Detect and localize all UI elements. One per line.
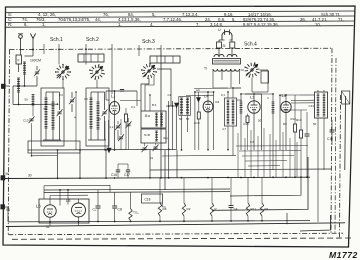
svg-text:30: 30 (28, 174, 32, 178)
coil pack box Sch.2 (78, 54, 104, 62)
terminal tab A (1, 84, 5, 89)
svg-text:a,b: a,b (196, 88, 200, 92)
wire bus pair upper (44, 189, 230, 190)
svg-text:Sch.1: Sch.1 (50, 37, 63, 43)
L1 bias parts (124, 114, 127, 122)
wire stub d (111, 44, 113, 54)
svg-text:0,1: 0,1 (131, 105, 135, 109)
wire harness horizontals (236, 145, 308, 147)
wire stub e (138, 45, 140, 56)
screen boundary right 2 (335, 58, 336, 233)
mains transformer Tr core (213, 59, 241, 65)
svg-text:36,: 36, (300, 17, 306, 22)
bottom shield box left (28, 141, 80, 153)
svg-text:Sch.2: Sch.2 (86, 37, 99, 43)
svg-text:R13: R13 (296, 118, 302, 122)
svg-text:R2: R2 (187, 207, 191, 211)
resistor R04 (129, 209, 132, 221)
svg-text:50: 50 (44, 107, 48, 111)
svg-text:R:: R: (8, 22, 12, 27)
wire harness verticals (237, 133, 239, 178)
fuse Si1 (217, 42, 222, 48)
capacitor C14 (305, 133, 310, 135)
svg-text:4,: 4, (150, 22, 154, 27)
svg-text:C2: C2 (168, 93, 172, 97)
svg-text:4,7: 4,7 (222, 127, 226, 131)
chassis boundary left (8, 50, 9, 235)
svg-text:C18: C18 (145, 198, 151, 202)
tuned circuit block 1 can (41, 88, 64, 146)
wire drop b (79, 150, 81, 178)
wire transformer secondary leads (212, 69, 214, 88)
svg-text:21: 21 (150, 156, 154, 160)
svg-text:6,: 6, (24, 22, 28, 27)
svg-text:Si: Si (223, 44, 226, 48)
svg-text:71,: 71, (338, 17, 344, 22)
svg-text:54: 54 (98, 117, 102, 121)
svg-text:R12: R12 (291, 117, 297, 121)
svg-text:C17: C17 (124, 173, 130, 177)
mains plug (222, 32, 232, 41)
wire box feed (149, 95, 151, 111)
earth terminal (19, 35, 23, 39)
wire inter-can b (108, 120, 110, 150)
wire grid return (118, 163, 128, 165)
wire can risers (168, 101, 170, 178)
svg-text:C15: C15 (327, 137, 333, 141)
valve L5 (72, 203, 86, 217)
output transformer (315, 92, 328, 118)
svg-text:100CM: 100CM (30, 59, 41, 63)
wire drop a (57, 150, 59, 178)
grid leads (59, 190, 61, 206)
fuse Si2 (230, 42, 235, 48)
svg-text:M: M (6, 172, 9, 176)
IF can box upper (141, 111, 166, 128)
wire inter-can a (75, 92, 77, 150)
wire right rail upper (280, 109, 307, 111)
antenna coil La (23, 62, 26, 74)
tuned circuit block 2 (90, 98, 93, 128)
mains transformer Tr secondary (213, 69, 239, 71)
svg-text:C8: C8 (118, 208, 122, 212)
svg-text:F: F (18, 59, 20, 63)
switch contact box Sch4 (261, 71, 269, 83)
wire partial bus (95, 211, 141, 214)
wire output stage (49, 199, 51, 205)
shield box corner 1 (212, 157, 308, 210)
svg-text:10,: 10, (315, 22, 321, 27)
svg-text:L5: L5 (66, 198, 71, 203)
svg-text:C13: C13 (23, 119, 29, 123)
svg-text:C6: C6 (84, 97, 88, 101)
resistor R1 (260, 203, 263, 216)
valve L1 (109, 102, 119, 115)
svg-text:C4: C4 (234, 207, 238, 211)
svg-text:C11: C11 (237, 98, 242, 102)
screen corner bottom right (300, 215, 331, 231)
wire Lv to output rails (291, 99, 315, 101)
wire S1 tab link (5, 206, 8, 208)
svg-text:P: P (215, 207, 217, 211)
trimmer C21 (119, 136, 123, 138)
resistor below arrow (197, 112, 200, 119)
terminal tab S1 (1, 205, 5, 210)
wire stub f (160, 45, 162, 50)
resistor R6 (158, 203, 161, 216)
shield box corner 2 (230, 178, 301, 197)
svg-text:5,: 5, (232, 17, 236, 22)
wire L1 top (114, 91, 116, 102)
trimmer C22 (142, 147, 146, 149)
wire Lv risers (280, 94, 300, 96)
svg-text:R6: R6 (163, 207, 167, 211)
capacitor C8 (112, 205, 117, 207)
svg-text:Sch.3: Sch.3 (142, 39, 155, 45)
coil det2 (272, 102, 275, 113)
svg-text:704/76,13,24/75,: 704/76,13,24/75, (58, 17, 90, 22)
rotary switch Sch.4 (256, 72, 259, 73)
svg-text:8,6/7,5,4,12,15,36,: 8,6/7,5,4,12,15,36, (243, 22, 279, 27)
svg-text:31: 31 (46, 225, 50, 229)
lower dashed line (12, 238, 352, 239)
wire bottom bus 2 (6, 223, 345, 227)
wire bottom bus 1 (8, 221, 310, 222)
svg-text:7,7,12,46,: 7,7,12,46, (163, 17, 182, 22)
svg-text:L3: L3 (250, 95, 255, 100)
arrow junction (197, 98, 201, 102)
svg-text:7,: 7, (196, 22, 200, 27)
svg-text:44,: 44, (95, 17, 101, 22)
svg-text:R9: R9 (283, 122, 287, 126)
svg-text:3,14,8,: 3,14,8, (210, 22, 223, 27)
svg-text:50: 50 (258, 119, 262, 123)
wire det rail (241, 93, 273, 95)
svg-text:50: 50 (186, 117, 190, 121)
svg-text:5,: 5, (152, 12, 156, 17)
capacitor C6 (96, 205, 101, 207)
gang capacitor C2 (116, 125, 120, 127)
wire bus mid (150, 169, 331, 170)
wire L4 risers (194, 92, 196, 150)
resistor R13 (299, 130, 302, 138)
chassis boundary bottom (8, 233, 343, 235)
coil pack box Sch.3 (150, 56, 180, 63)
parts table rule 1 (5, 11, 355, 13)
wire L3 box top (245, 94, 262, 150)
svg-text:76,: 76, (103, 12, 109, 17)
wire stub c (85, 44, 87, 54)
svg-text:0,1: 0,1 (221, 93, 225, 97)
svg-text:C4: C4 (59, 93, 63, 97)
wire can lower rail (141, 148, 176, 150)
svg-text:L6: L6 (36, 204, 41, 209)
svg-text:Sch.4: Sch.4 (244, 42, 257, 48)
capacitor C17 (126, 169, 130, 171)
svg-text:S=R: S=R (144, 133, 151, 137)
parts table rule 4 (5, 26, 354, 28)
svg-text:L4: L4 (204, 94, 209, 99)
svg-text:1,: 1, (118, 22, 122, 27)
svg-text:R1: R1 (265, 207, 269, 211)
wire can bottoms rail (28, 149, 145, 151)
rotary switch Sch.2 (101, 72, 104, 75)
wire antenna block (18, 92, 20, 105)
svg-text:7,12,3,4,: 7,12,3,4, (182, 12, 199, 17)
wire bus M (5, 177, 310, 178)
wire Sch3 to can (141, 79, 149, 112)
coil L-det (240, 102, 243, 113)
wire Sch2 leads (96, 80, 98, 89)
gang capacitor C1 (70, 99, 74, 101)
screen boundary right (340, 95, 341, 238)
svg-text:B:a: B:a (145, 114, 150, 118)
rotary switch Sch.1 (67, 71, 70, 73)
rotary switch Sch.3 (153, 71, 156, 73)
resistor R8 (293, 124, 296, 132)
resistor R10 (246, 116, 249, 123)
svg-text:R10: R10 (244, 122, 250, 126)
parts table rule 2 (5, 16, 354, 18)
chassis boundary right inner (331, 48, 332, 233)
resistor P (210, 203, 213, 216)
oscillator coil L50 (32, 95, 35, 106)
valve L6 (44, 205, 56, 217)
diode arrow (175, 103, 179, 107)
wire Sch4 leads (251, 78, 253, 93)
box C18 (142, 194, 163, 203)
svg-text:1,2: 1,2 (110, 125, 114, 129)
capacitor C on L1 anode (106, 90, 137, 92)
screen corner bottom right 2 (286, 213, 288, 224)
wire drop d (149, 150, 151, 178)
parts table rule 3 (5, 21, 354, 23)
svg-text:0,5: 0,5 (250, 140, 254, 144)
svg-text:50: 50 (179, 117, 183, 121)
wire bus pair lower (44, 192, 230, 193)
trimmer C13 (29, 118, 33, 120)
svg-text:B:4: B:4 (152, 103, 157, 107)
wire output feed (44, 184, 110, 187)
capacitor C15 (330, 129, 335, 131)
wire main vertical c (85, 54, 87, 65)
svg-text:R11: R11 (251, 207, 257, 211)
wire heater rail (50, 194, 88, 196)
svg-text:C24: C24 (309, 104, 315, 108)
tuned circuit block 2 can (86, 88, 109, 146)
wire Sch1 leads (62, 80, 64, 89)
junction dots mid rails (194, 91, 196, 93)
output stage box (39, 199, 89, 223)
input coil Lb (17, 78, 20, 92)
wire osc return (32, 155, 58, 157)
svg-text:C₆: C₆ (93, 208, 97, 212)
trimmer C23 (153, 146, 157, 148)
svg-text:1,: 1, (42, 22, 46, 27)
tuned circuit block 1 (45, 98, 48, 128)
antenna padding capacitor (35, 71, 39, 73)
valve L3 (248, 101, 260, 113)
wire stub a (43, 44, 45, 54)
IF transformer T1 coils (180, 98, 183, 114)
capacitor C4 (229, 205, 234, 207)
terminal tab M (1, 176, 5, 181)
svg-text:50: 50 (25, 98, 29, 102)
IF can box lower (141, 129, 166, 143)
wire drop c (105, 150, 107, 178)
mains transformer Tr primary (214, 55, 224, 57)
valve Lv (281, 101, 291, 112)
wire drop f (176, 150, 178, 178)
resistor R11 (246, 203, 249, 216)
svg-text:M1772: M1772 (329, 250, 358, 260)
resistor R2 (182, 203, 185, 216)
wire mid rails (186, 94, 214, 96)
svg-text:U: U (218, 28, 221, 32)
svg-text:4sq: 4sq (163, 136, 168, 140)
IF transformer T2 (225, 98, 237, 126)
chassis boundary top (10, 48, 333, 49)
svg-text:R4: R4 (216, 100, 220, 104)
wire main vertical d (111, 54, 113, 94)
wire main vertical a (160, 50, 162, 178)
loudspeaker (344, 96, 347, 170)
fuse F (16, 55, 22, 64)
wire drop e (164, 150, 166, 190)
wire main vertical b (58, 54, 60, 65)
trimmer C20 (126, 123, 130, 125)
svg-text:TO₄: TO₄ (133, 211, 139, 215)
valve L4 (203, 101, 213, 112)
wire stub b (58, 44, 60, 54)
svg-text:50: 50 (313, 122, 317, 126)
aerial terminal (32, 37, 34, 50)
capacitor C16 (116, 169, 120, 171)
wire antenna ground rail (13, 103, 58, 105)
svg-text:C16: C16 (111, 173, 117, 177)
